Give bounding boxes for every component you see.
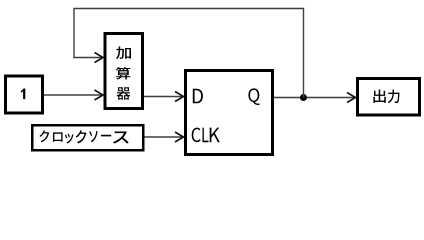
wire W2: adder output to D input	[144, 96, 183, 98]
label 加	[116, 47, 131, 59]
arrowhead into adder lower input	[95, 90, 104, 100]
arrowhead into adder upper input	[95, 53, 104, 63]
wire W1: constant 1 output to adder input	[44, 94, 102, 96]
block CLKSRC: クロックソース clock source	[32, 125, 143, 150]
wire W5: feedback from junction up over to adder upper input	[74, 9, 304, 98]
block ADDER: 加算器	[105, 34, 143, 109]
block OUT: 出力 output	[358, 79, 420, 116]
arrowhead into CLK input	[175, 132, 184, 142]
pin label D	[193, 89, 203, 104]
junction dot on Q output net	[300, 94, 307, 101]
value label 1	[21, 89, 26, 100]
wire W3: clock source output to CLK input	[145, 136, 184, 138]
pin label Q	[248, 88, 259, 105]
label 力	[388, 89, 400, 103]
label 算	[116, 67, 131, 80]
arrowhead into output block	[347, 93, 356, 103]
label 出	[373, 90, 385, 103]
pin label CLK	[192, 128, 220, 143]
label クロックソース	[39, 130, 128, 143]
block DFF U1: D flip-flop	[186, 71, 273, 155]
label 器	[117, 87, 131, 99]
wire W4: Q output to output block	[274, 97, 355, 99]
arrowhead into D input	[175, 92, 184, 102]
block CONST1: constant value 1	[6, 76, 43, 113]
